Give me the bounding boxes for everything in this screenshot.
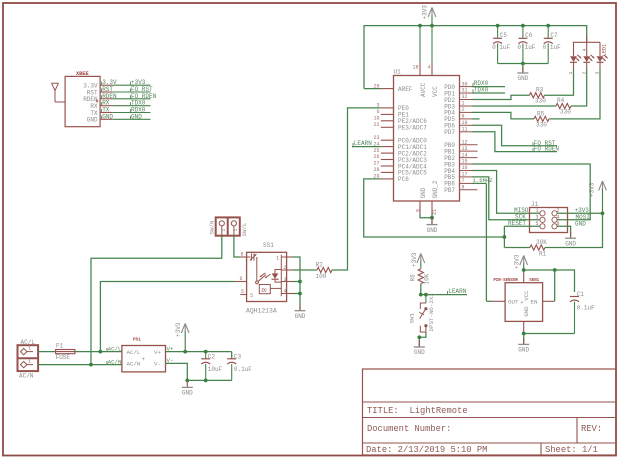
- svg-text:PS1: PS1: [133, 337, 141, 342]
- wire PD3 to R4: [472, 105, 556, 107]
- wire SS1 pin3 to ground rail: [293, 281, 300, 283]
- svg-text:C1: C1: [577, 291, 585, 298]
- U1 top pin numbers 18 4: [412, 65, 430, 71]
- svg-text:SW1: SW1: [409, 313, 416, 324]
- svg-text:V+: V+: [167, 345, 174, 352]
- wire net FO_RST at XBEE RST: [102, 86, 153, 93]
- svg-text:GND: GND: [523, 306, 530, 317]
- SEN1 pin stubs: [493, 270, 555, 334]
- svg-text:+: +: [142, 356, 146, 363]
- J1 pin numbers: [535, 208, 559, 227]
- junction SW1 ground: [417, 335, 421, 339]
- relay SS1 value AQH1213A: [246, 308, 277, 315]
- svg-text:GND: GND: [102, 113, 113, 120]
- svg-text:C6: C6: [525, 32, 533, 39]
- wire PD2 to R3: [472, 95, 530, 99]
- fuse F1: [56, 343, 75, 362]
- wire PD5 stub: [472, 118, 480, 120]
- svg-text:12: 12: [462, 139, 468, 145]
- U1 top pin names AVCC VCC: [420, 82, 439, 97]
- svg-text:C2: C2: [208, 353, 216, 360]
- svg-text:AC/N: AC/N: [19, 373, 34, 380]
- svg-text:1: 1: [233, 229, 239, 232]
- U1 left pin numbers: [373, 83, 379, 179]
- wire R4 to LED1-2: [571, 69, 587, 106]
- wire PIR GND rail: [524, 333, 575, 335]
- wire net 1.6MHZ at PB6: [472, 177, 493, 184]
- svg-text:17: 17: [462, 172, 468, 178]
- SW/N label: [209, 220, 216, 234]
- svg-text:C3: C3: [234, 353, 242, 360]
- svg-text:R4: R4: [557, 97, 565, 104]
- wire caps bottom rail: [498, 63, 549, 65]
- SS1 pin 8 stub: [240, 252, 247, 258]
- svg-text:SS1: SS1: [263, 242, 274, 249]
- wire fuse to PS1 AC/L: [75, 345, 122, 352]
- junction PIR GND: [522, 332, 526, 336]
- svg-text:V-: V-: [167, 357, 174, 364]
- XBEE pin names: [83, 83, 98, 124]
- connector AC/L AC/N block: [18, 345, 39, 371]
- wire R1 to +3V3: [545, 213, 603, 247]
- wire net FO_RDEN at XBEE RDEN: [102, 93, 157, 100]
- wire RESET label to J1 pin5: [504, 220, 540, 227]
- svg-text:PB7: PB7: [444, 187, 455, 194]
- svg-text:20: 20: [373, 83, 379, 89]
- svg-text:14: 14: [462, 152, 468, 158]
- svg-text:8: 8: [240, 252, 243, 258]
- svg-text:C7: C7: [550, 32, 558, 39]
- wire SS1 pin4 to ground rail: [293, 293, 300, 295]
- resistor R1 30K: [530, 239, 547, 257]
- svg-text:GND: GND: [182, 390, 193, 397]
- svg-text:+3V3: +3V3: [411, 252, 418, 267]
- svg-text:3: 3: [284, 277, 287, 283]
- svg-text:ZC: ZC: [261, 288, 267, 294]
- svg-text:R2: R2: [316, 262, 324, 269]
- wire SS1 pin2 to R2: [293, 269, 317, 271]
- junction SW1 stem: [424, 293, 428, 297]
- SEN1 pin names: [508, 290, 538, 317]
- svg-text:0.1uF: 0.1uF: [492, 44, 510, 51]
- junction PIR EN: [553, 268, 557, 272]
- XBEE pin stubs: [100, 85, 113, 119]
- power +3V3 symbol at R6: [411, 252, 425, 268]
- U1 top pin stubs: [420, 63, 432, 76]
- svg-text:31: 31: [462, 88, 468, 94]
- led LED1 element 2: [581, 42, 594, 74]
- XBEE origin cross: [96, 100, 99, 103]
- resistor R5: [534, 110, 549, 128]
- LED1 name label: [601, 44, 607, 56]
- ground under C6: [517, 67, 528, 83]
- ground under J1: [565, 232, 576, 248]
- svg-text:REV:: REV:: [581, 424, 602, 434]
- wire PC6 RESET to junction: [364, 179, 505, 248]
- svg-text:1: 1: [221, 229, 227, 232]
- svg-text:GND: GND: [427, 227, 438, 234]
- SS1 pin 6 stub: [234, 276, 247, 282]
- power +3V3 symbol at J1: [589, 181, 607, 213]
- wire net LEARN at PC1: [352, 140, 381, 147]
- svg-text:Document Number:: Document Number:: [367, 424, 451, 434]
- svg-text:RESET: RESET: [508, 220, 526, 227]
- svg-text:GND: GND: [575, 220, 586, 227]
- wire R6 to LEARN: [420, 284, 422, 295]
- svg-text:FUSE: FUSE: [56, 354, 71, 361]
- wire SW/N to AC/N: [91, 236, 222, 364]
- wire SS1 pin6 to AC/L: [100, 282, 234, 352]
- wire net FO_RDEN from PD7: [472, 132, 559, 153]
- svg-text:GND: GND: [131, 113, 142, 120]
- svg-text:1.6MHZ: 1.6MHZ: [473, 177, 494, 184]
- junction V+ arrow: [183, 350, 187, 354]
- svg-text:26: 26: [373, 154, 379, 160]
- svg-text:10K: 10K: [423, 273, 430, 284]
- junction R6 LEARN: [419, 293, 423, 297]
- svg-text:+3V3: +3V3: [514, 254, 521, 269]
- svg-text:C5: C5: [500, 32, 508, 39]
- antenna of XBEE: [52, 83, 66, 102]
- svg-text:F1: F1: [56, 343, 64, 350]
- svg-text:10uF: 10uF: [208, 366, 223, 373]
- svg-text:GND: GND: [517, 75, 528, 82]
- AC/N label: [19, 373, 34, 380]
- pir sensor SEN1 body: [505, 283, 542, 322]
- resistor R4: [556, 97, 571, 115]
- SW1 value DPST-NO-2X3: [428, 293, 435, 332]
- connector SW/N SW/L block: [216, 217, 240, 235]
- wire AVCC to rail: [419, 26, 421, 63]
- U1 right pin numbers: [462, 81, 468, 190]
- svg-text:+3V3: +3V3: [575, 207, 590, 214]
- wire R2 to PE0: [332, 108, 381, 270]
- svg-text:25: 25: [373, 148, 379, 154]
- xbee module XBEE: [65, 71, 100, 127]
- svg-text:EN: EN: [531, 299, 538, 306]
- junction AC/N SW/N: [89, 363, 93, 367]
- SS1 right stubs: [287, 257, 293, 294]
- led LED1 common anode rail: [573, 36, 600, 42]
- svg-text:28: 28: [373, 167, 379, 173]
- junction on +3V3 rail at VCC: [430, 24, 434, 28]
- capacitor C2 10uF: [201, 352, 222, 381]
- wire U1 GND pins to ground: [420, 214, 432, 225]
- svg-text:AQH1213A: AQH1213A: [246, 308, 277, 315]
- junction AC/L SS1 feed: [99, 350, 103, 354]
- junction PIR VCC: [522, 268, 526, 272]
- junction V- ground: [185, 379, 189, 383]
- junction V+ C2: [204, 350, 208, 354]
- U1 right pin stubs: [460, 87, 478, 190]
- svg-text:GND: GND: [414, 349, 425, 356]
- svg-text:AC/L: AC/L: [108, 345, 122, 352]
- svg-text:1: 1: [462, 101, 465, 107]
- svg-text:SW/N: SW/N: [209, 220, 216, 234]
- svg-text:AC/N: AC/N: [127, 361, 141, 368]
- wire AC/N to PS1: [38, 358, 122, 365]
- wire net +3V3 at J1 pin2: [557, 207, 602, 214]
- capacitor C6 0.1uF: [517, 26, 535, 64]
- svg-text:3: 3: [535, 214, 538, 220]
- wire PB5 to J1 SCK: [472, 177, 540, 220]
- svg-text:U1: U1: [394, 69, 402, 76]
- svg-text:SW/L: SW/L: [241, 222, 248, 236]
- svg-text:LEARN: LEARN: [448, 288, 466, 295]
- J1 pin circles: [540, 211, 557, 229]
- wire SW1 to ground: [419, 332, 426, 347]
- switch SW1 tactile: [419, 295, 427, 332]
- wire PB6 to PIR OUT: [485, 183, 487, 301]
- svg-text:1: 1: [276, 256, 279, 262]
- wire PIR OUT: [486, 300, 492, 302]
- svg-text:6: 6: [239, 276, 242, 282]
- svg-text:Date: 2/13/2019 5:10 PM: Date: 2/13/2019 5:10 PM: [366, 445, 487, 455]
- svg-text:GND_2: GND_2: [432, 180, 439, 198]
- svg-text:AC/L: AC/L: [21, 339, 36, 346]
- wire net TDX0 at PD1: [472, 87, 505, 94]
- wire net LEARN at SW1: [421, 288, 467, 295]
- PIR-SENSOR name label: [493, 279, 518, 283]
- svg-text:DPST-NO-2X3: DPST-NO-2X3: [428, 293, 435, 332]
- wire AC/L to fuse: [38, 351, 56, 353]
- svg-text:+3V3: +3V3: [175, 322, 182, 337]
- capacitor C7 0.1uF: [543, 26, 561, 64]
- power module PS1: [122, 337, 166, 372]
- ground under SS1: [295, 304, 306, 320]
- svg-text:5: 5: [415, 209, 421, 212]
- SW1 label: [409, 313, 416, 324]
- power +3V3 symbol top: [422, 5, 436, 26]
- wire V+ to C3: [231, 352, 233, 359]
- junction SS1 pin3: [298, 280, 302, 284]
- svg-text:30: 30: [462, 81, 468, 87]
- svg-text:VCC: VCC: [523, 290, 530, 301]
- svg-text:2: 2: [462, 107, 465, 113]
- svg-text:8: 8: [462, 185, 465, 191]
- AC/L label: [21, 339, 36, 346]
- svg-text:7: 7: [462, 178, 465, 184]
- svg-text:10: 10: [462, 120, 468, 126]
- wire net TDX0 at XBEE RX: [102, 100, 151, 107]
- wire SS1 pin1 to ground rail: [293, 257, 300, 310]
- svg-text:23: 23: [373, 135, 379, 141]
- svg-text:GND: GND: [420, 187, 427, 198]
- capacitor C5 0.1uF: [492, 26, 510, 64]
- wire net GND at J1 pin6: [557, 220, 586, 238]
- wire EN to +3V3: [554, 270, 556, 301]
- svg-text:FO_RDEN: FO_RDEN: [534, 146, 560, 153]
- svg-text:1: 1: [535, 208, 538, 214]
- junction on +3V3 rail at C7: [546, 24, 550, 28]
- svg-text:R3: R3: [536, 86, 544, 93]
- svg-text:+3V3: +3V3: [422, 5, 429, 20]
- wire +3V3 rail at PIR: [524, 270, 575, 292]
- junction on +3V3 rail at C5: [496, 24, 500, 28]
- svg-text:5: 5: [250, 293, 253, 299]
- svg-text:330: 330: [560, 109, 571, 116]
- SS1 internal circuit: [247, 253, 287, 296]
- junction U1 ground: [430, 216, 434, 220]
- wire SW/L to SS1 pin8: [234, 236, 240, 257]
- svg-text:OUT: OUT: [508, 299, 519, 306]
- ground under SEN1: [518, 338, 529, 354]
- connector J1 body: [530, 208, 568, 233]
- relay SS1 label: [263, 242, 274, 249]
- ground under U1: [427, 218, 438, 234]
- svg-text:27: 27: [373, 161, 379, 167]
- svg-text:AREF: AREF: [398, 86, 413, 93]
- svg-text:GND: GND: [295, 313, 306, 320]
- svg-text:4: 4: [427, 65, 430, 71]
- svg-text:100: 100: [316, 273, 327, 280]
- U1 bottom pin stubs: [420, 201, 432, 214]
- svg-text:AVCC: AVCC: [420, 82, 427, 97]
- svg-text:VCC: VCC: [432, 86, 439, 97]
- wire net +3V3 at XBEE 3.3V: [102, 79, 151, 86]
- svg-text:PE3/ADC7: PE3/ADC7: [398, 125, 427, 132]
- svg-text:AC/L: AC/L: [127, 349, 141, 356]
- junction C2 ground: [204, 379, 208, 383]
- SEN1 refdes label: [529, 279, 539, 283]
- svg-text:1: 1: [28, 358, 31, 364]
- svg-text:AC/N: AC/N: [108, 358, 122, 365]
- power +3V3 symbol at PS1: [175, 322, 189, 351]
- svg-text:0.1uF: 0.1uF: [234, 366, 252, 373]
- junction on +3V3 rail at AVCC: [418, 24, 422, 28]
- svg-text:0.1uF: 0.1uF: [517, 44, 535, 51]
- svg-text:0.1uF: 0.1uF: [543, 44, 561, 51]
- power +3V3 symbol at PIR: [514, 254, 528, 270]
- connector J1 label: [531, 201, 539, 208]
- SS1 pin 5 stub: [240, 289, 253, 299]
- junction RESET R1: [503, 235, 507, 239]
- wire PB4 to J1 MISO: [472, 171, 540, 214]
- svg-text:Sheet: 1/1: Sheet: 1/1: [545, 445, 598, 455]
- U1 bottom pin names GND GND_2: [420, 180, 439, 198]
- svg-text:0.1uF: 0.1uF: [577, 305, 595, 312]
- svg-text:GND: GND: [565, 240, 576, 247]
- U1 left pin names: [398, 86, 427, 183]
- ic U1 body: [394, 76, 460, 202]
- relay SS1 body: [247, 252, 287, 301]
- svg-text:V-: V-: [154, 361, 161, 368]
- SW/L label: [241, 222, 248, 236]
- wire PIR GND stem: [523, 334, 525, 345]
- svg-text:330: 330: [536, 121, 547, 128]
- svg-text:V+: V+: [154, 349, 161, 356]
- svg-text:GND: GND: [518, 347, 529, 354]
- svg-text:15: 15: [462, 159, 468, 165]
- svg-text:22: 22: [373, 122, 379, 128]
- U1 bottom pin numbers 5 21: [415, 209, 438, 215]
- svg-text:11: 11: [462, 127, 468, 133]
- U1 right pin names: [444, 84, 455, 194]
- led LED1 element 3: [595, 42, 608, 74]
- wire net RDX0 at XBEE TX: [102, 107, 151, 114]
- wire net V+ from PS1: [166, 345, 232, 352]
- wire net RDX0 at PD0: [472, 80, 505, 87]
- svg-text:TDX0: TDX0: [474, 87, 489, 94]
- ground under PS1: [182, 381, 193, 397]
- LED1 pin number 4: [582, 48, 588, 51]
- svg-text:5: 5: [241, 289, 244, 295]
- svg-text:1: 1: [28, 345, 31, 351]
- wire R3 to LED1-1: [545, 69, 574, 95]
- U1 left pin stubs: [381, 89, 394, 179]
- junction SS1 pin4: [298, 292, 302, 296]
- wire PD4 to R5: [472, 112, 534, 119]
- SS1 right pin numbers: [276, 256, 287, 295]
- wire R1 left: [504, 247, 530, 249]
- svg-text:LEARN: LEARN: [354, 140, 372, 147]
- svg-text:LightRemote: LightRemote: [410, 406, 468, 416]
- svg-text:30K: 30K: [536, 239, 547, 246]
- wire caps to ground: [522, 64, 524, 74]
- resistor R2 100: [316, 262, 333, 280]
- svg-text:TITLE:: TITLE:: [367, 406, 399, 416]
- wire PB3 to J1 MOSI: [472, 164, 590, 221]
- ground under SW1: [414, 341, 425, 357]
- capacitor C1 0.1uF: [570, 291, 595, 333]
- svg-text:16: 16: [462, 165, 468, 171]
- wire +3V3 top rail: [364, 26, 587, 89]
- junction +3V3 J1: [601, 211, 605, 215]
- wire AREF to rail: [364, 88, 381, 90]
- junction on +3V3 rail at C6: [521, 24, 525, 28]
- svg-text:9: 9: [462, 114, 465, 120]
- svg-text:330: 330: [535, 98, 546, 105]
- svg-text:21: 21: [432, 209, 438, 215]
- svg-text:4: 4: [557, 214, 560, 220]
- svg-text:13: 13: [462, 146, 468, 152]
- led LED1 element 1: [568, 42, 581, 74]
- resistor R6 10K: [410, 269, 431, 285]
- capacitor C3 0.1uF: [227, 353, 252, 380]
- wire VCC to rail: [431, 26, 433, 63]
- svg-text:R5: R5: [537, 110, 545, 117]
- svg-text:32: 32: [462, 94, 468, 100]
- title block: [363, 369, 617, 455]
- wire net FO_RST from PD6: [472, 125, 557, 147]
- svg-text:R1: R1: [539, 251, 547, 258]
- wire net V- from PS1: [166, 357, 188, 380]
- svg-text:+3V3: +3V3: [589, 182, 596, 197]
- wire +3V3 rail to LED1 anode: [586, 41, 588, 43]
- svg-text:LED1: LED1: [601, 44, 607, 56]
- junction caps bottom: [521, 62, 525, 66]
- svg-text:GND: GND: [87, 117, 98, 124]
- svg-text:R6: R6: [410, 274, 417, 282]
- resistor R3: [530, 86, 547, 104]
- svg-text:PC6: PC6: [398, 176, 409, 183]
- op-amp U1 label: [394, 69, 402, 76]
- wire R5 to LED1-3: [549, 69, 600, 119]
- wire ground rail under PSU: [187, 379, 231, 381]
- svg-text:19: 19: [373, 116, 379, 122]
- svg-text:6: 6: [376, 109, 379, 115]
- svg-text:18: 18: [412, 65, 418, 71]
- svg-text:PD7: PD7: [444, 129, 455, 136]
- svg-text:XBEE: XBEE: [76, 71, 89, 77]
- wire net GND at XBEE GND: [102, 113, 151, 120]
